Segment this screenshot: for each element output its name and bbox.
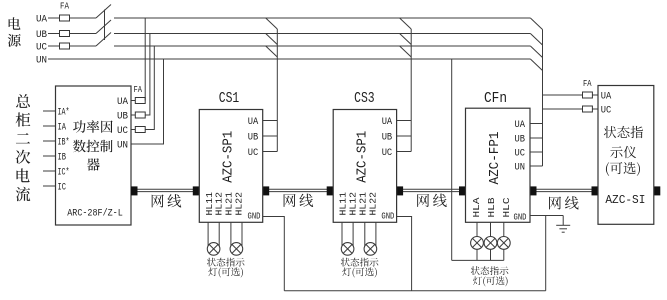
tap diagonal UC to CS1 bbox=[266, 46, 278, 57]
svg-text:CS1: CS1 bbox=[219, 91, 240, 107]
svg-text:CS3: CS3 bbox=[354, 91, 375, 107]
svg-text:UC: UC bbox=[515, 149, 526, 160]
wire CS3 GND to earth rail bbox=[397, 217, 412, 291]
controller title 功率因数控制器 bbox=[73, 120, 113, 171]
terminal label HL22 (CS1) bbox=[233, 192, 244, 216]
label AZC-SI bbox=[605, 193, 645, 207]
cable connector (controller right) bbox=[131, 186, 138, 195]
tap diagonal UC to CFn bbox=[530, 46, 542, 58]
fuse FA on UB bbox=[60, 31, 70, 37]
fuse FA on UA bbox=[60, 15, 70, 21]
svg-text:UC: UC bbox=[248, 148, 258, 159]
terminal label UA (CS3) bbox=[382, 117, 393, 128]
cable connector (AZC-SI left) bbox=[592, 186, 599, 195]
indicator lamp HL1 (CS1) bbox=[207, 243, 220, 256]
cable connector (CS1 left) bbox=[193, 186, 200, 195]
wire controller UN feed bbox=[131, 59, 164, 144]
svg-text:ARC-28F/Z-L: ARC-28F/Z-L bbox=[67, 208, 123, 220]
svg-text:UC: UC bbox=[117, 126, 128, 137]
wire UA bus bbox=[48, 17, 530, 19]
terminal label UB (CS1) bbox=[248, 133, 258, 144]
tap diagonal UA to CFn bbox=[530, 18, 542, 30]
label 网线 4 bbox=[549, 196, 579, 209]
terminal label UN (controller) bbox=[117, 141, 128, 152]
terminal label UC (CS1) bbox=[248, 148, 258, 159]
module title CS3 bbox=[354, 91, 375, 107]
terminal label UC (CS3) bbox=[382, 148, 393, 159]
network cable CS1 to CS3 bbox=[263, 189, 334, 191]
svg-text:UC: UC bbox=[601, 106, 612, 117]
svg-text:FA: FA bbox=[60, 1, 69, 12]
net label UC bbox=[36, 43, 47, 54]
terminal label HL21 (CS3) bbox=[357, 192, 368, 216]
wire CS1 GND to earth rail bbox=[263, 217, 285, 291]
svg-text:HLC: HLC bbox=[501, 197, 512, 217]
CT input stub IA bbox=[43, 125, 56, 127]
svg-text:GND: GND bbox=[514, 211, 527, 222]
indicator lamp HL2 (CS1) bbox=[230, 243, 243, 256]
wire controller UA feed bbox=[131, 18, 145, 101]
label 网线 2 bbox=[284, 194, 314, 207]
circuit breaker QF blade UC bbox=[96, 33, 111, 47]
controller ARC-28F/Z-L box bbox=[56, 86, 132, 225]
circuit breaker QF tie bar bbox=[104, 10, 106, 41]
wire CS3 phase stubs bbox=[397, 121, 412, 152]
terminal label IA* bbox=[58, 107, 70, 119]
svg-text:UA: UA bbox=[117, 97, 128, 108]
terminal label UA (AZC-SI) bbox=[601, 92, 612, 103]
fuse FA label (AZC-SI) bbox=[583, 79, 592, 89]
label 状态指示灯(可选) (CFn) bbox=[471, 266, 509, 286]
label 状态指示灯(可选) (CS3) bbox=[341, 258, 379, 278]
wire UN bus bbox=[48, 58, 530, 60]
cable connector (CFn left) bbox=[459, 186, 466, 195]
svg-text:HL22: HL22 bbox=[367, 192, 378, 216]
svg-text:UN: UN bbox=[515, 163, 526, 174]
CT input stub IC* bbox=[43, 170, 56, 172]
wire controller UB feed bbox=[131, 34, 150, 116]
svg-text:UC: UC bbox=[382, 148, 393, 159]
svg-text:HLB: HLB bbox=[486, 197, 497, 217]
label AZC-FP1 (CFn) bbox=[487, 132, 503, 185]
circuit breaker QF blade UB bbox=[96, 20, 111, 34]
label AZC-SP1 (CS3) bbox=[355, 131, 371, 183]
terminal label UB (controller) bbox=[117, 112, 128, 123]
wire CFn lamp leads lower bbox=[477, 249, 504, 260]
tap diagonal UN to CFn bbox=[530, 59, 542, 71]
fuse FA on AZC-SI UC bbox=[583, 106, 593, 112]
status indicator AZC-SI box bbox=[598, 86, 654, 225]
wire UC bus bbox=[48, 45, 530, 47]
svg-text:IC*: IC* bbox=[58, 167, 70, 179]
indicator lamp HLB (CFn) bbox=[484, 237, 497, 250]
svg-text:FA: FA bbox=[134, 85, 143, 95]
tap diagonal UA to CS3 bbox=[400, 18, 412, 29]
svg-text:AZC-SP1: AZC-SP1 bbox=[355, 131, 371, 183]
svg-text:UB: UB bbox=[117, 112, 128, 123]
wire CFn lamp common bus bbox=[452, 259, 504, 261]
svg-text:GND: GND bbox=[248, 210, 261, 221]
terminal label IC bbox=[58, 183, 67, 194]
wire CFn phase drop bbox=[542, 30, 544, 167]
net label UN bbox=[36, 56, 47, 67]
wire CS1 lamp HL2 leads bbox=[231, 222, 242, 246]
label 状态指示仪(可选) bbox=[604, 126, 643, 176]
terminal label IB* bbox=[58, 137, 70, 149]
terminal label UA (CS1) bbox=[248, 117, 258, 128]
terminal label HL22 (CS3) bbox=[367, 192, 378, 216]
terminal label UN (CFn) bbox=[515, 163, 526, 174]
fuse FA on controller UB bbox=[135, 112, 145, 118]
svg-text:UA: UA bbox=[515, 120, 526, 131]
terminal label UB (CFn) bbox=[515, 135, 526, 146]
terminal label GND (CS1) bbox=[248, 210, 261, 221]
CT input stub IC bbox=[43, 185, 56, 187]
terminal label UC (controller) bbox=[117, 126, 128, 137]
fuse FA on controller UC bbox=[135, 127, 145, 133]
svg-text:IB*: IB* bbox=[58, 137, 70, 149]
terminal label IB bbox=[58, 153, 67, 164]
net label UB bbox=[36, 30, 47, 41]
terminal label HLB (CFn) bbox=[486, 197, 497, 217]
earth ground symbol bbox=[556, 216, 570, 233]
svg-text:AZC-SP1: AZC-SP1 bbox=[221, 131, 237, 183]
module CS1 AZC-SP1 box bbox=[199, 110, 262, 223]
power source label 电源 bbox=[8, 17, 21, 46]
svg-text:UB: UB bbox=[515, 135, 526, 146]
terminal label UC (AZC-SI) bbox=[601, 106, 612, 117]
fuse FA on UC bbox=[60, 43, 70, 49]
svg-text:UA: UA bbox=[601, 92, 612, 103]
svg-text:UA: UA bbox=[248, 117, 258, 128]
terminal label HLC (CFn) bbox=[501, 197, 512, 217]
indicator lamp HLA (CFn) bbox=[471, 237, 484, 250]
network cable controller to CS1 bbox=[131, 189, 199, 191]
cable connector (CS3 left) bbox=[327, 186, 334, 195]
wire CS1 phase drop bbox=[276, 29, 278, 152]
svg-text:UA: UA bbox=[382, 117, 393, 128]
label AZC-SP1 (CS1) bbox=[221, 131, 237, 183]
earth rail wire bbox=[284, 290, 545, 292]
indicator lamp HL1 (CS3) bbox=[341, 243, 354, 256]
fuse FA on controller UA bbox=[135, 98, 145, 104]
indicator lamp HLC (CFn) bbox=[497, 237, 510, 250]
svg-text:IA: IA bbox=[58, 123, 67, 134]
wire controller UC feed bbox=[131, 46, 154, 130]
terminal label HLA (CFn) bbox=[471, 197, 482, 217]
terminal label HL21 (CS1) bbox=[224, 192, 235, 216]
fuse FA on AZC-SI UA bbox=[583, 92, 593, 98]
terminal label UA (controller) bbox=[117, 97, 128, 108]
terminal label IA bbox=[58, 123, 67, 134]
net label UA bbox=[36, 15, 47, 26]
terminal label IC* bbox=[58, 167, 70, 179]
wire CFn GND to earth bbox=[530, 216, 563, 291]
wire CFn lamp leads upper bbox=[477, 222, 504, 236]
indicator lamp HL2 (CS3) bbox=[364, 243, 377, 256]
circuit breaker QF blade UA bbox=[96, 5, 111, 19]
fuse FA label (source) bbox=[60, 1, 69, 12]
cable connector (CS1 right) bbox=[263, 186, 270, 195]
fuse FA label (controller) bbox=[134, 85, 143, 95]
cable connector (AZC-SI right) bbox=[654, 186, 661, 195]
label 网线 3 bbox=[417, 194, 447, 207]
svg-text:UA: UA bbox=[36, 15, 47, 26]
tap diagonal UB to CS3 bbox=[400, 34, 412, 45]
label 状态指示灯(可选) (CS1) bbox=[207, 258, 245, 278]
svg-text:AZC-SI: AZC-SI bbox=[605, 193, 645, 207]
wire CS1 lamp HL1 leads bbox=[208, 222, 219, 246]
network cable CFn to AZC-SI bbox=[530, 189, 598, 191]
svg-text:CFn: CFn bbox=[484, 91, 507, 107]
svg-text:IA*: IA* bbox=[58, 107, 70, 119]
svg-text:FA: FA bbox=[583, 79, 592, 89]
wire CS3 lamp HL2 leads bbox=[365, 222, 376, 246]
tap diagonal UB to CFn bbox=[530, 34, 542, 46]
CT input stub IB* bbox=[43, 140, 56, 142]
wire CS3 phase drop bbox=[410, 29, 412, 152]
tap diagonal UC to CS3 bbox=[400, 46, 412, 57]
wire UC feed to AZC-SI bbox=[543, 108, 599, 110]
tap diagonal UB to CS1 bbox=[266, 34, 278, 45]
svg-text:IB: IB bbox=[58, 153, 67, 164]
module CFn AZC-FP1 box bbox=[466, 108, 531, 222]
wire CFn phase stubs bbox=[530, 124, 543, 167]
cable connector (CS3 right) bbox=[397, 186, 404, 195]
terminal label HL11 (CS1) bbox=[204, 192, 215, 216]
svg-text:UN: UN bbox=[117, 141, 128, 152]
terminal label UC (CFn) bbox=[515, 149, 526, 160]
module title CS1 bbox=[219, 91, 240, 107]
svg-text:UB: UB bbox=[36, 30, 47, 41]
svg-text:IC: IC bbox=[58, 183, 67, 194]
CT input stub IA* bbox=[43, 110, 56, 112]
wire UN drop to CFn lamp common bbox=[451, 59, 453, 260]
svg-text:AZC-FP1: AZC-FP1 bbox=[487, 132, 503, 185]
terminal label HL11 (CS3) bbox=[338, 192, 349, 216]
label 网线 1 bbox=[152, 194, 182, 207]
terminal label HL12 (CS3) bbox=[348, 192, 359, 216]
svg-text:HL22: HL22 bbox=[233, 192, 244, 216]
terminal label HL12 (CS1) bbox=[214, 192, 225, 216]
svg-text:UB: UB bbox=[248, 133, 258, 144]
svg-text:UN: UN bbox=[36, 56, 47, 67]
wire UA feed to AZC-SI bbox=[543, 94, 599, 96]
wire CS1 phase stubs bbox=[263, 121, 278, 152]
svg-text:UC: UC bbox=[36, 43, 47, 54]
svg-text:UB: UB bbox=[382, 133, 393, 144]
terminal label UA (CFn) bbox=[515, 120, 526, 131]
terminal label GND (CFn) bbox=[514, 211, 527, 222]
cable connector (CFn right) bbox=[530, 186, 537, 195]
network cable CS3 to CFn bbox=[397, 189, 466, 191]
terminal label GND (CS3) bbox=[381, 210, 394, 221]
module title CFn bbox=[484, 91, 507, 107]
terminal label UB (CS3) bbox=[382, 133, 393, 144]
svg-text:HLA: HLA bbox=[471, 197, 482, 217]
wire UB bus bbox=[48, 33, 530, 35]
tap diagonal UA to CS1 bbox=[266, 18, 278, 29]
module CS3 AZC-SP1 box bbox=[333, 110, 396, 223]
svg-text:GND: GND bbox=[381, 210, 394, 221]
label 总柜二次电流 bbox=[16, 94, 31, 201]
CT input stub IB bbox=[43, 155, 56, 157]
wire CS3 lamp HL1 leads bbox=[342, 222, 353, 246]
controller model ARC-28F/Z-L bbox=[67, 208, 123, 220]
